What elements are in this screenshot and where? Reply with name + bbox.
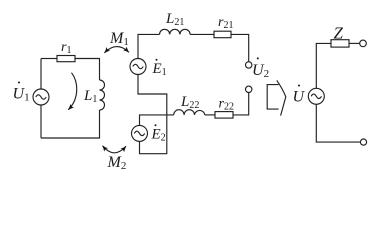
inductor L22 — [174, 110, 205, 115]
wire: L22 to E2 top — [140, 115, 174, 126]
source U1 — [33, 89, 49, 105]
wire: r1 to top-right corner and down — [75, 59, 100, 81]
mutual arrow M1 — [104, 47, 128, 53]
svg-text:L1: L1 — [83, 88, 97, 105]
source E2 — [132, 125, 148, 141]
svg-text:U2: U2 — [252, 62, 269, 80]
wire: bottom terminal to r22 — [233, 93, 249, 115]
wire: right circuit bottom — [316, 104, 360, 142]
terminal: right top — [360, 40, 367, 47]
flux arrow in loop — [68, 73, 76, 110]
wire: left loop left side lower — [40, 105, 42, 138]
wire: L1 to bottom wire of loop — [41, 110, 100, 138]
source E1 — [130, 59, 146, 75]
terminal: U2 top — [246, 62, 252, 68]
wire: U1 to top-left corner — [40, 59, 42, 90]
svg-text:L22: L22 — [180, 94, 199, 111]
resistor r1 — [57, 56, 75, 62]
svg-text:M1: M1 — [109, 30, 129, 48]
source U — [308, 88, 324, 104]
equivalence arrow body — [267, 85, 278, 110]
mutual arrow M2 — [103, 146, 127, 153]
svg-text:U1: U1 — [13, 85, 30, 103]
wire: r21 to top terminal — [231, 34, 249, 61]
wire: Z to top right terminal — [349, 42, 360, 44]
wire: r22 to L22 — [205, 114, 215, 116]
resistor r21 — [214, 31, 231, 38]
svg-text:r21: r21 — [218, 15, 233, 31]
terminal: U2 bottom — [246, 86, 252, 92]
wire: L21 to r21 — [190, 33, 214, 35]
inductor L1 — [100, 80, 105, 110]
impedance Z — [331, 40, 349, 47]
svg-text:Z: Z — [334, 23, 344, 42]
wire: E2 bottom loop to E1 bottom — [138, 75, 167, 154]
wire: right circuit top — [316, 43, 331, 88]
svg-text:E2: E2 — [151, 127, 166, 144]
resistor r22 — [215, 112, 233, 119]
inductor L21 — [160, 29, 191, 34]
svg-text:E1: E1 — [152, 61, 167, 78]
wire: E1 top to upper branch — [138, 34, 160, 58]
equivalence arrow head — [277, 80, 286, 115]
terminal: right bottom — [360, 139, 366, 145]
svg-text:r1: r1 — [61, 40, 71, 56]
svg-text:M2: M2 — [107, 154, 127, 169]
svg-text:U: U — [293, 89, 306, 106]
svg-text:r22: r22 — [219, 97, 234, 113]
svg-text:L21: L21 — [165, 11, 184, 28]
wire: left loop top — [41, 58, 57, 60]
